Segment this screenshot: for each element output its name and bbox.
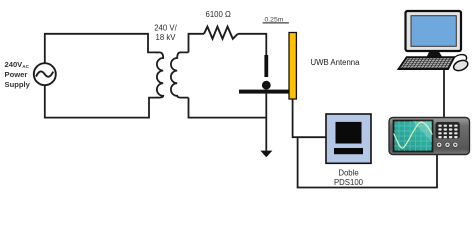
svg-text:6100 Ω: 6100 Ω <box>206 10 232 19</box>
AC source V1 <box>34 63 56 85</box>
label Doble PDS100 <box>334 169 364 188</box>
label 240 V / 18 kV <box>154 24 177 43</box>
wire primary top <box>45 34 158 64</box>
wire secondary bottom <box>189 98 267 118</box>
Doble PDS100 unit <box>326 114 371 163</box>
wire antenna tee to oscilloscope <box>298 137 437 187</box>
wire spark gap to ground <box>265 94 267 151</box>
label 240Vac Power Supply <box>5 60 31 89</box>
wire antenna to PDS100 <box>293 99 326 137</box>
computer workstation <box>399 11 470 73</box>
svg-text:18 kV: 18 kV <box>156 33 177 42</box>
svg-text:Doble: Doble <box>338 169 358 178</box>
UWB antenna <box>289 33 296 100</box>
transformer T1 primary winding <box>156 52 163 97</box>
svg-text:240VAC: 240VAC <box>5 60 30 69</box>
transformer T1 secondary winding <box>171 52 189 97</box>
oscilloscope <box>389 118 470 155</box>
wire computer to oscilloscope <box>443 69 445 119</box>
ground arrow <box>260 151 272 158</box>
spark gap ball electrode <box>262 81 271 90</box>
svg-text:UWB Antenna: UWB Antenna <box>311 58 361 67</box>
svg-text:240 V/: 240 V/ <box>154 24 177 33</box>
wire primary bottom <box>45 85 158 118</box>
label 0.25m with dimension line <box>263 17 289 24</box>
spark gap ground plate <box>239 90 289 94</box>
svg-text:Supply: Supply <box>5 80 31 89</box>
svg-text:Power: Power <box>5 70 28 79</box>
svg-text:PDS100: PDS100 <box>334 178 364 187</box>
spark gap top electrode <box>264 55 268 77</box>
wire secondary top <box>189 34 205 53</box>
resistor R1 <box>204 27 238 39</box>
wire resistor to spark gap <box>238 34 266 55</box>
